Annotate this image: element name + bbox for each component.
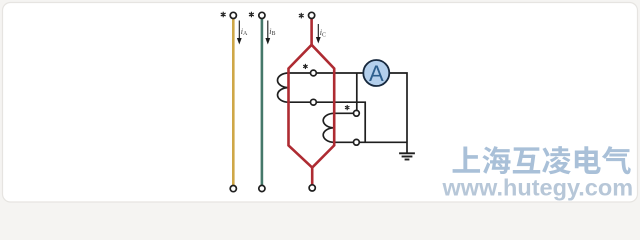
terminal: TA2 secondary S2 [354,139,360,145]
current arrow iB [267,21,269,40]
phase C right parallel branch through TA2 primary [312,45,335,168]
phase A conductor (yellow) [232,19,235,186]
polarity mark * phase B terminal [249,12,253,17]
polarity mark * TA2 secondary S1 [345,106,349,110]
wire: branch from ammeter-left wire down to CT2 secondary S1 [356,73,358,113]
current arrow iA [238,21,240,40]
current transformer TA1 secondary winding (left branch) [278,73,289,102]
terminal: TA2 secondary S1 [354,110,360,116]
wire: ammeter right terminal to ground drop [387,73,407,153]
polarity mark * phase A terminal [221,12,225,17]
wire: CT2 secondary S1 (top) to terminal [334,112,356,114]
terminal: phase A top [230,12,236,18]
wire: CT1 secondary S2 (bottom) horizontal then down to ground bus [289,102,366,142]
wire: CT2 secondary S2 (bottom) to ground bus [334,141,407,143]
current transformer TA2 secondary winding (right branch) [323,113,334,142]
phase C conductor (red): feeder from top terminal to split point [310,19,313,45]
polarity mark * TA1 secondary S1 [304,64,308,68]
phase C left parallel branch through TA1 primary [289,45,313,168]
phase C conductor to bottom terminal [311,168,314,185]
current arrow iC [317,24,319,38]
wire: CT1 secondary S1 (top) to ammeter left terminal [289,72,366,74]
ground (earth) symbol [399,153,415,159]
terminal: phase C top [309,12,315,18]
terminal: phase B top [259,12,265,18]
ammeter PA (instrument) [363,60,389,86]
terminal: phase C bottom [309,185,315,191]
svg-text:www.hutegy.com: www.hutegy.com [442,175,634,201]
terminal: TA1 secondary S1 [311,70,317,76]
terminal: TA1 secondary S2 [311,99,317,105]
watermark: company name (decorative text rendered as paths) [453,146,631,174]
svg-text:A: A [369,61,384,86]
terminal: phase A bottom [230,186,236,192]
terminal: phase B bottom [259,185,265,191]
polarity mark * phase C terminal [299,13,303,18]
phase B conductor (green) [261,19,264,186]
